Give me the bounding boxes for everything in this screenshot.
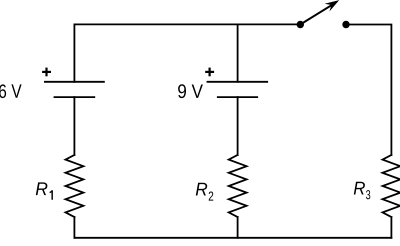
wire bottom rail <box>74 237 391 239</box>
label 9 V <box>178 84 203 98</box>
wire 9V battery negative to R2 <box>237 97 239 155</box>
resistor R3 zigzag <box>383 155 400 217</box>
label R3 <box>354 182 371 200</box>
battery V1 6V negative short plate <box>55 96 95 98</box>
switch S1 right contact node <box>342 21 349 28</box>
plus sign of battery V1 <box>42 68 51 77</box>
wire R2 to bottom rail <box>237 217 239 238</box>
battery V2 9V negative short plate <box>218 96 257 98</box>
resistor R1 zigzag <box>66 155 84 217</box>
resistor R2 zigzag <box>229 155 247 217</box>
switch S1 blade arrowhead <box>325 0 340 11</box>
battery V1 6V positive long plate <box>45 81 104 83</box>
plus sign of battery V2 <box>205 68 214 77</box>
wire R3 to bottom rail <box>390 217 392 238</box>
wire 9V branch top vertical <box>237 24 239 81</box>
label R2 <box>196 183 214 201</box>
label R1 <box>36 182 53 199</box>
switch S1 left contact node <box>297 21 304 28</box>
switch S1 blade shaft <box>300 5 332 25</box>
wire 6V battery negative to R1 <box>73 97 75 155</box>
wire from switch right contact to top-right corner down to R3 <box>346 25 391 156</box>
wire R1 to bottom rail <box>73 217 75 238</box>
wire top rail from left branch to switch left contact <box>74 24 300 81</box>
battery V2 9V positive long plate <box>208 81 268 83</box>
label 6 V <box>0 84 22 98</box>
